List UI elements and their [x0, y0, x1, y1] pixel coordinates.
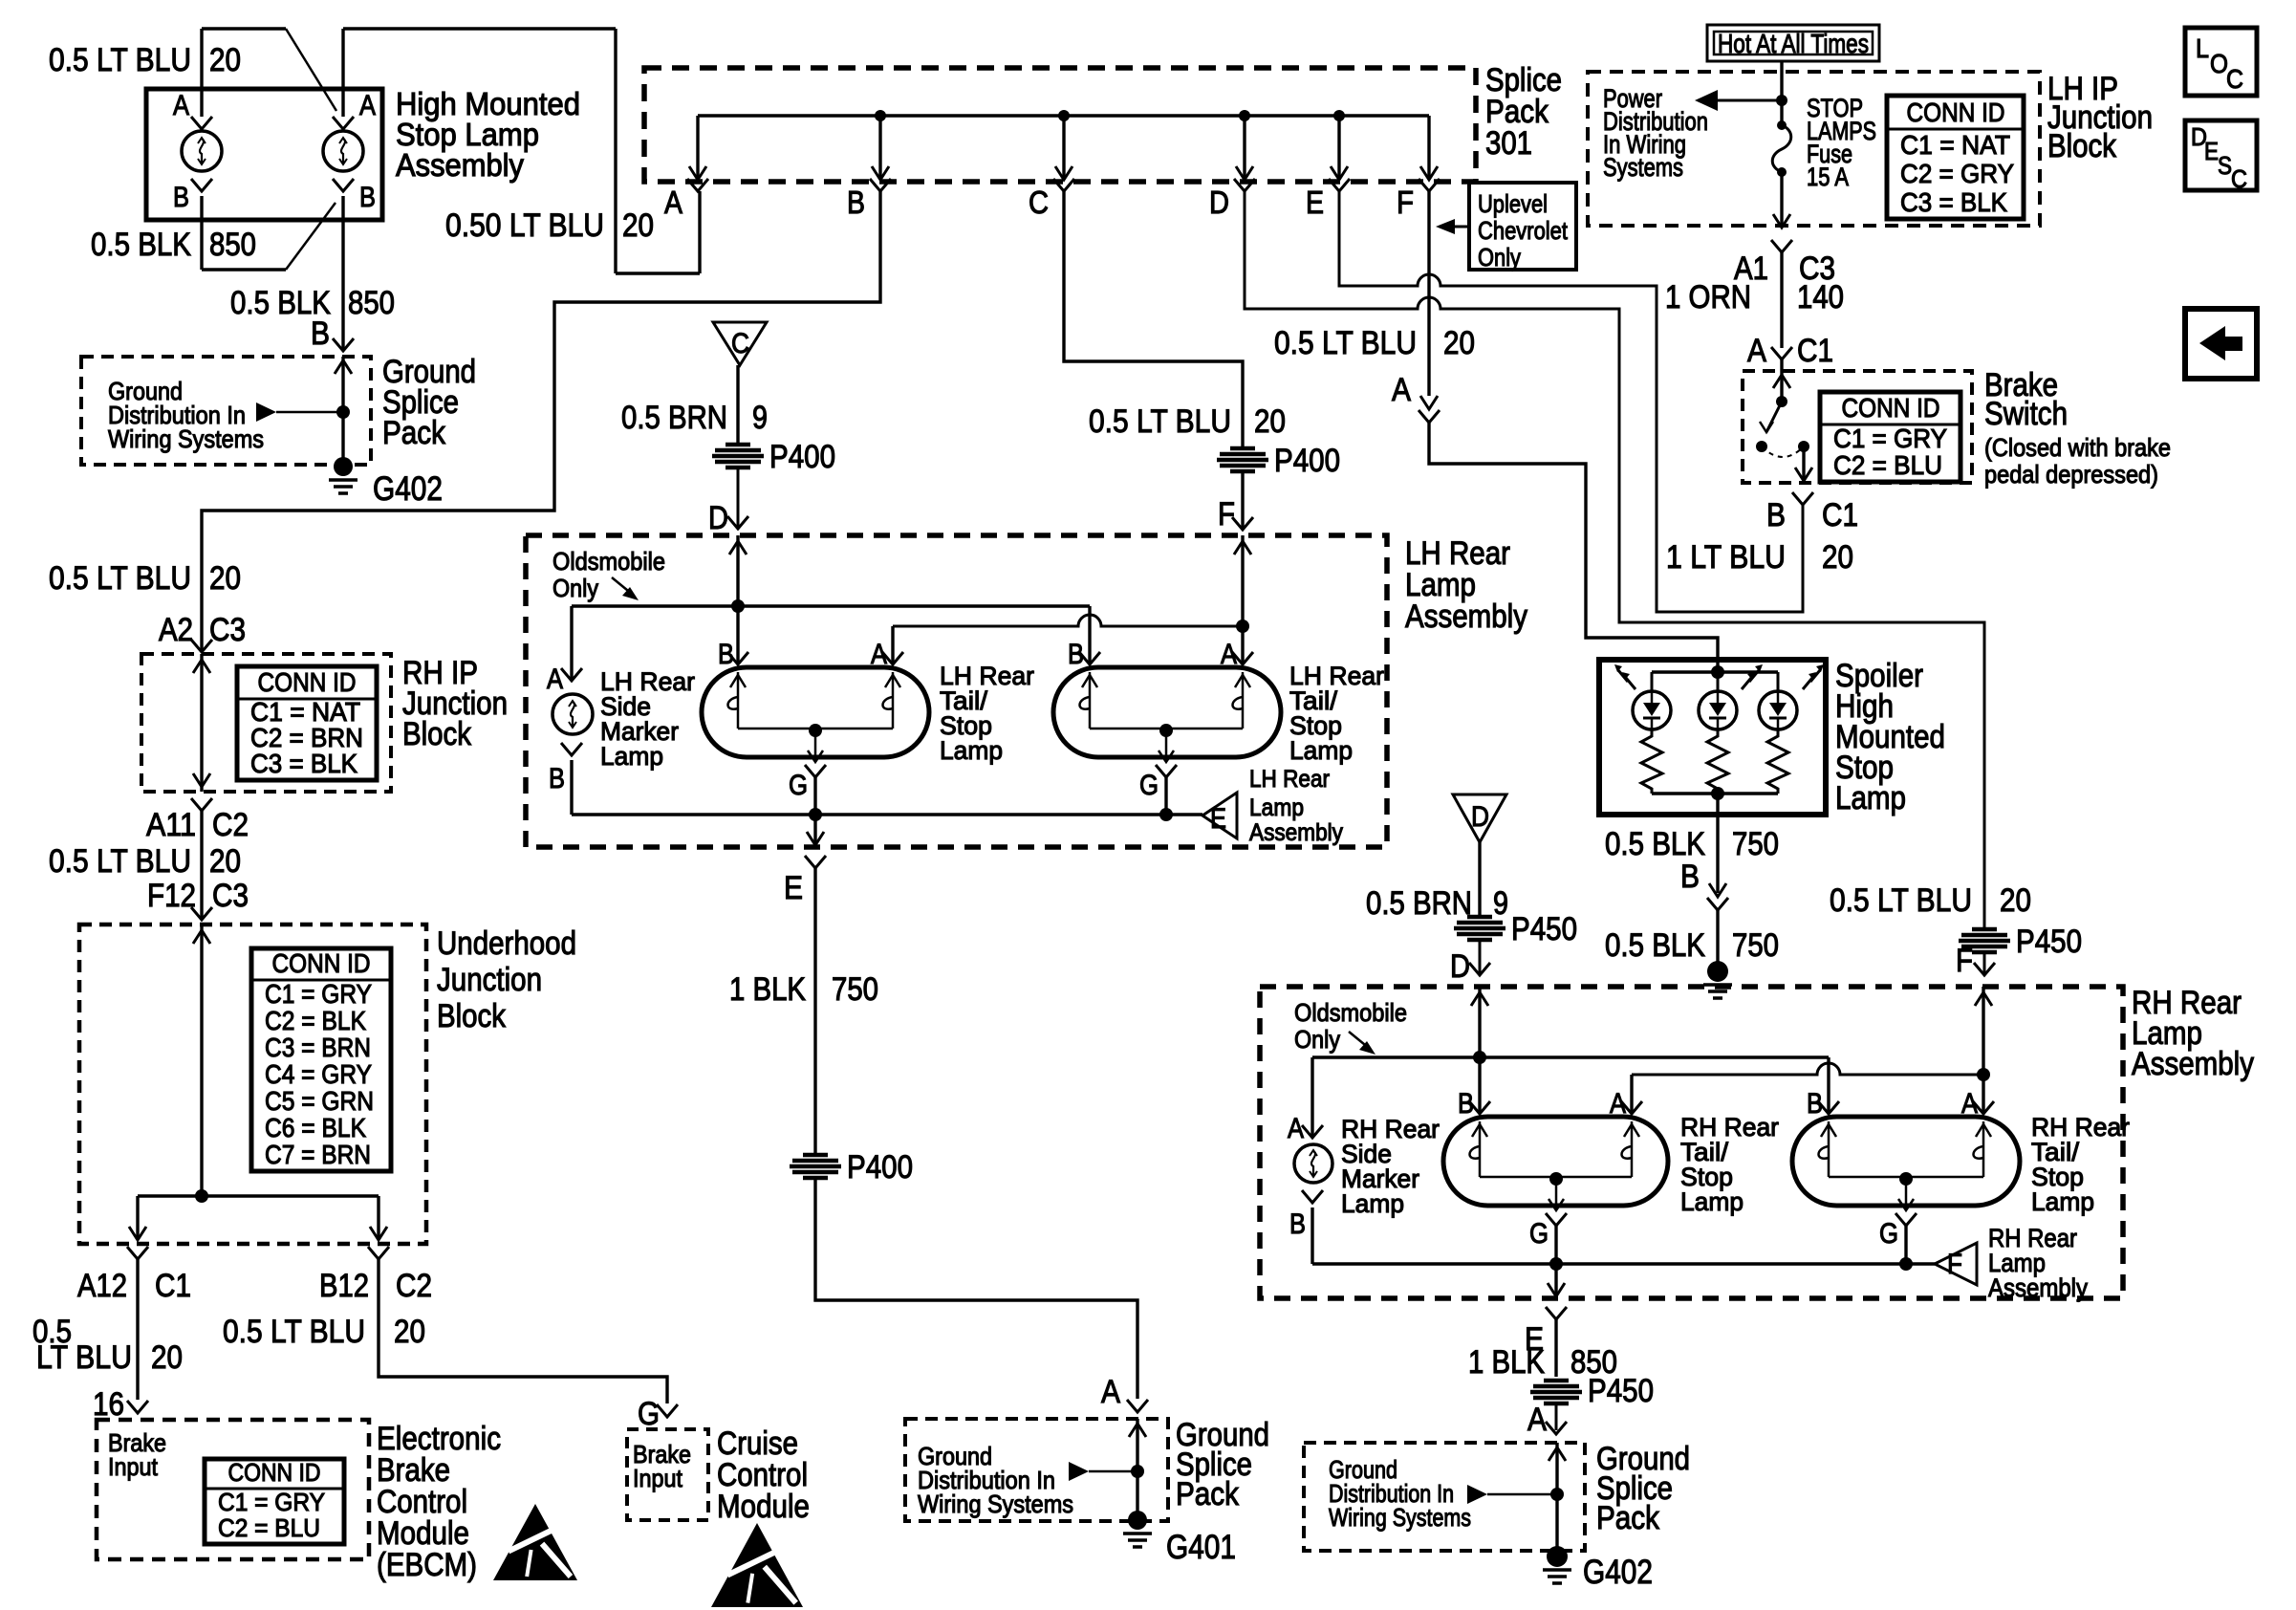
spoiler top bus [1652, 670, 1778, 673]
svg-text:Switch: Switch [1984, 396, 2068, 432]
svg-text:C1 = GRY: C1 = GRY [265, 979, 372, 1009]
underhood junction block dashed box [79, 925, 426, 1244]
svg-text:0.5 LT BLU: 0.5 LT BLU [223, 1314, 365, 1350]
chevron A1 C3 [1771, 240, 1792, 252]
svg-text:E: E [2204, 137, 2219, 165]
svg-text:P450: P450 [2016, 924, 2082, 960]
svg-text:750: 750 [1732, 927, 1779, 964]
svg-text:E: E [1306, 185, 1324, 220]
svg-text:0.5 BLK: 0.5 BLK [91, 227, 191, 263]
svg-text:20: 20 [151, 1339, 183, 1376]
svg-text:Only: Only [1294, 1025, 1340, 1054]
svg-text:C3 = BLK: C3 = BLK [1900, 187, 2007, 217]
svg-text:Oldsmobile: Oldsmobile [1294, 998, 1407, 1027]
svg-text:Chevrolet: Chevrolet [1478, 216, 1569, 245]
svg-text:Wiring Systems: Wiring Systems [918, 1490, 1073, 1518]
splice node [336, 405, 350, 419]
svg-text:20: 20 [2000, 882, 2031, 919]
chevron side marker A [561, 668, 582, 681]
LED emission arrows 1 [1626, 678, 1635, 689]
svg-text:Assembly: Assembly [1405, 598, 1527, 635]
svg-text:A: A [1392, 372, 1411, 408]
ground splice pack box G402 upper [81, 357, 371, 465]
chevron D LH box [727, 516, 748, 529]
LH ground bus [572, 813, 1202, 816]
svg-text:B: B [359, 182, 376, 213]
svg-text:Pack: Pack [1176, 1476, 1240, 1512]
svg-text:0.5 BRN: 0.5 BRN [1366, 885, 1472, 922]
spoiler LED 3 [1777, 672, 1780, 691]
svg-text:0.5 LT BLU: 0.5 LT BLU [49, 843, 191, 880]
chevron RH lamp1 B [1469, 1101, 1490, 1114]
svg-text:Block: Block [402, 716, 472, 752]
chevron lamp1 G [805, 765, 826, 777]
switch blade [1766, 402, 1782, 432]
wire RH lamp2 B drop [1827, 1057, 1830, 1114]
chevron D RH box [1469, 963, 1490, 975]
svg-text:C: C [2231, 164, 2247, 193]
svg-text:C4 = GRY: C4 = GRY [265, 1059, 372, 1089]
svg-text:0.5 LT BLU: 0.5 LT BLU [49, 560, 191, 597]
ground G402 upper symbol [334, 457, 353, 476]
svg-text:A12: A12 [77, 1268, 127, 1304]
svg-text:C3: C3 [209, 612, 246, 648]
svg-text:Lamp: Lamp [600, 742, 663, 771]
LH tail stop lamp 2 [1053, 667, 1281, 757]
connector P450 RH ground [1544, 1379, 1569, 1383]
svg-text:Uplevel: Uplevel [1478, 189, 1548, 218]
chevron G cruise [657, 1404, 678, 1417]
chevron A G402 [1546, 1422, 1567, 1434]
chevron lamp2 A [1232, 652, 1253, 664]
svg-text:C2: C2 [212, 807, 249, 843]
chevron F LH [1232, 517, 1253, 530]
svg-text:B: B [847, 185, 865, 220]
node F RH lamp2 A [1977, 1068, 1990, 1081]
connector P450 D wire [1467, 915, 1492, 920]
ESD symbol EBCM [493, 1504, 577, 1580]
svg-text:15 A: 15 A [1807, 163, 1849, 191]
svg-text:S: S [2218, 151, 2232, 180]
svg-text:Wiring Systems: Wiring Systems [1329, 1503, 1471, 1532]
svg-text:Wiring Systems: Wiring Systems [108, 424, 264, 453]
svg-text:C: C [2226, 64, 2243, 94]
wire fuse down [1780, 172, 1783, 228]
svg-text:A: A [1101, 1374, 1120, 1410]
brake switch conn id table [1820, 392, 1960, 482]
chevron RH lamp1 G [1546, 1213, 1567, 1226]
triangle connector F [1935, 1243, 1977, 1285]
triangle connector E [1202, 793, 1237, 838]
svg-text:C2: C2 [396, 1268, 432, 1304]
wire triangle D to RH lamp [1478, 842, 1481, 916]
LED emission arrows 3 [1803, 678, 1812, 689]
svg-text:C3: C3 [212, 878, 249, 914]
wire 1 BLK 850 [1554, 1319, 1557, 1377]
cruise control dashed box [627, 1429, 708, 1520]
svg-text:Lamp: Lamp [940, 736, 1003, 765]
svg-text:A: A [1527, 1402, 1547, 1438]
svg-text:A11: A11 [146, 807, 196, 843]
switch contact right [1798, 441, 1809, 452]
svg-text:P400: P400 [847, 1149, 913, 1186]
spoiler resistor 2 [1707, 729, 1728, 794]
svg-text:16: 16 [93, 1386, 124, 1423]
RH bus line 2 with hop [1632, 1063, 1983, 1075]
switch travel dashed arc [1762, 446, 1804, 457]
svg-text:B: B [1458, 1088, 1474, 1120]
chevron RH side marker A [1302, 1125, 1323, 1138]
chevron B brake switch lower [1792, 492, 1813, 505]
svg-text:Input: Input [108, 1452, 159, 1481]
G402 node [1550, 1488, 1564, 1501]
svg-text:G: G [1879, 1218, 1898, 1250]
arrow into ground splice [341, 357, 344, 467]
LOC box [2185, 28, 2257, 96]
spoiler resistor 1 [1641, 729, 1662, 794]
svg-text:F12: F12 [147, 878, 196, 914]
wire lamp2 B drop [1088, 606, 1091, 664]
svg-text:G: G [638, 1396, 660, 1432]
RH ground exit wire [1554, 1264, 1557, 1296]
wire tap B to RH IP junction block [202, 191, 880, 652]
svg-text:G402: G402 [1583, 1554, 1653, 1591]
LH ground exit wire [813, 815, 816, 845]
chevron RH lamp1 A [1621, 1101, 1642, 1114]
chevron lamp1 B [727, 652, 748, 664]
svg-text:C1: C1 [155, 1268, 191, 1304]
svg-text:20: 20 [1822, 539, 1853, 576]
svg-text:B: B [718, 639, 734, 670]
svg-text:Lamp: Lamp [1249, 794, 1304, 821]
svg-text:D: D [1450, 948, 1470, 985]
chevron A12 C1 [127, 1247, 148, 1259]
side marker wire A [570, 606, 573, 681]
pin A right chevron [333, 117, 354, 129]
svg-text:CONN ID: CONN ID [258, 667, 357, 697]
svg-text:850: 850 [209, 227, 256, 263]
svg-text:LH Rear: LH Rear [1249, 766, 1330, 793]
svg-text:9: 9 [1493, 885, 1508, 922]
uplevel pointer arrow [1448, 226, 1469, 228]
wire B12 to cruise control [379, 1259, 667, 1403]
svg-text:D: D [1209, 185, 1229, 220]
chevron F12 C3 [191, 907, 212, 920]
LED emission arrows 2 [1742, 678, 1751, 689]
svg-text:1 BLK: 1 BLK [729, 971, 806, 1008]
svg-text:(EBCM): (EBCM) [377, 1547, 477, 1583]
jumper wire lamp A pins [202, 27, 286, 30]
wire 1 ORN 140 [1780, 252, 1783, 348]
G401 node [1131, 1465, 1144, 1478]
chevron RH lamp2 A [1973, 1101, 1994, 1114]
spoiler ground stub [1716, 910, 1719, 964]
stop lamp bulb left [182, 131, 222, 171]
wire tap F to spoiler lamp [1427, 191, 1430, 396]
svg-text:20: 20 [209, 42, 241, 78]
svg-text:B: B [1289, 1208, 1306, 1240]
connector P450 on D wire [1972, 927, 1997, 932]
svg-text:750: 750 [832, 971, 878, 1008]
svg-text:D: D [1471, 801, 1489, 833]
svg-text:F: F [1947, 1249, 1962, 1280]
svg-text:Oldsmobile: Oldsmobile [552, 547, 665, 576]
svg-text:G: G [789, 770, 808, 801]
splice tap E [1337, 116, 1340, 180]
svg-text:C3 = BLK: C3 = BLK [250, 749, 357, 778]
svg-text:750: 750 [1732, 826, 1779, 862]
wire P400 to LH lamp pin F [1241, 472, 1244, 530]
svg-text:Pack: Pack [1596, 1500, 1660, 1536]
svg-text:1 LT BLU: 1 LT BLU [1666, 539, 1786, 576]
RH tail stop lamp 2 [1792, 1117, 2020, 1206]
svg-text:CONN ID: CONN ID [1907, 98, 2005, 127]
splice tap A [696, 116, 699, 180]
RH side marker lamp [1294, 1144, 1332, 1183]
svg-text:C3 = BRN: C3 = BRN [265, 1033, 371, 1062]
spoiler LED 1 [1651, 672, 1654, 691]
uplevel chevrolet only box [1469, 183, 1576, 270]
wire 0.5 LT BLU 20 to lamp A left [200, 29, 203, 117]
svg-text:0.5 LT BLU: 0.5 LT BLU [49, 42, 191, 78]
svg-text:C1: C1 [1822, 497, 1858, 533]
chevron F RH [1974, 963, 1995, 975]
svg-text:B: B [1766, 497, 1786, 533]
chevron lamp2 G [1156, 765, 1177, 777]
svg-text:P450: P450 [1511, 911, 1577, 947]
svg-text:0.5 BLK: 0.5 BLK [1605, 826, 1705, 862]
svg-text:20: 20 [1254, 403, 1286, 440]
connector P400 on C wire [1230, 446, 1255, 451]
svg-text:P400: P400 [769, 439, 835, 475]
svg-text:Hot At All Times: Hot At All Times [1718, 29, 1869, 58]
wire F pin into RH box [1982, 987, 1984, 1075]
svg-text:0.5 BRN: 0.5 BRN [621, 400, 727, 436]
svg-text:0.50 LT BLU: 0.50 LT BLU [445, 207, 604, 244]
chevron A C1 [1771, 347, 1792, 359]
RH ground bus [1312, 1262, 1935, 1265]
svg-text:G402: G402 [373, 470, 443, 508]
svg-text:Block: Block [2047, 128, 2117, 164]
svg-text:F: F [1218, 496, 1235, 533]
wire to underhood block [200, 811, 203, 920]
feed node [1776, 95, 1787, 106]
svg-text:C6 = BLK: C6 = BLK [265, 1113, 366, 1142]
wire lamp1 A drop [891, 626, 894, 664]
svg-text:A: A [1747, 333, 1766, 369]
wire tap E to brake switch [1339, 191, 1803, 612]
LH IP conn id table [1887, 96, 2024, 219]
svg-text:A: A [664, 185, 682, 220]
svg-text:G401: G401 [1166, 1529, 1236, 1566]
svg-text:20: 20 [394, 1314, 425, 1350]
wire to ground splice G401 [815, 1179, 1137, 1399]
wire RH lamp2 A drop [1982, 1075, 1984, 1114]
svg-text:Input: Input [633, 1464, 683, 1492]
svg-text:F: F [1956, 943, 1973, 979]
wire into underhood block [200, 925, 203, 1196]
svg-text:F: F [1397, 185, 1414, 220]
svg-text:P450: P450 [1588, 1373, 1654, 1409]
wire triangle C to P400 [736, 365, 739, 444]
svg-text:C1 = GRY: C1 = GRY [1833, 424, 1947, 453]
pointer to G402 node [1467, 1485, 1487, 1504]
chevron RH side marker B [1302, 1190, 1323, 1203]
wire D pin into RH box [1478, 987, 1481, 1114]
svg-text:G: G [1139, 770, 1159, 801]
wire through RH IP block [200, 654, 203, 792]
chevron A G401 [1127, 1400, 1148, 1412]
power distribution dashed box [1588, 72, 2040, 226]
chevron RH lamp2 G [1895, 1213, 1917, 1226]
node F lamp2 A [1236, 620, 1249, 633]
svg-text:Pack: Pack [382, 415, 446, 451]
svg-text:A: A [547, 664, 563, 695]
fuse STOP LAMPS 15A [1772, 125, 1791, 172]
splice pack 301 dashed box [644, 68, 1476, 182]
wire from hot feed [1780, 61, 1783, 125]
brake switch input wire [1780, 371, 1783, 402]
LH tail stop lamp 1 [702, 667, 929, 757]
chevron lamp2 B [1079, 652, 1100, 664]
svg-text:20: 20 [209, 843, 241, 880]
RH side marker wire A [1310, 1057, 1313, 1138]
ground G402 symbol [1547, 1546, 1568, 1567]
svg-text:C: C [1029, 185, 1049, 220]
pointer to G401 node [1069, 1462, 1089, 1481]
splice tap D [1243, 116, 1245, 180]
pointer to splice node [256, 402, 276, 422]
switch output wire [1802, 446, 1805, 481]
svg-text:Underhood: Underhood [437, 925, 576, 962]
svg-text:B: B [173, 182, 189, 213]
svg-text:20: 20 [1443, 325, 1475, 361]
svg-text:A: A [359, 90, 376, 121]
svg-text:301: 301 [1485, 125, 1532, 162]
svg-text:CONN ID: CONN ID [228, 1458, 321, 1487]
wire 0.5 BLK 850 to ground splice [341, 196, 344, 351]
underhood conn id table [251, 948, 391, 1171]
RH side marker wire B [1310, 1207, 1313, 1264]
svg-text:9: 9 [752, 400, 768, 436]
high mounted stop lamp assembly box [146, 89, 382, 220]
ground spoiler symbol [1707, 961, 1728, 982]
wire F pin into box [1241, 535, 1244, 626]
svg-text:C2 = BLU: C2 = BLU [218, 1513, 320, 1542]
svg-text:A: A [1288, 1113, 1304, 1144]
ground G401 symbol [1128, 1511, 1147, 1530]
spoiler ground node [1711, 787, 1724, 800]
svg-text:850: 850 [348, 285, 395, 321]
svg-text:C1 = NAT: C1 = NAT [1900, 130, 2010, 160]
svg-text:A: A [173, 90, 189, 121]
node D RH lamp1 B [1473, 1051, 1486, 1064]
spoiler resistor 3 [1767, 729, 1788, 794]
RH tail stop lamp 1 [1443, 1117, 1668, 1206]
svg-text:L: L [2196, 33, 2209, 63]
svg-text:pedal depressed): pedal depressed) [1984, 460, 2158, 489]
chevron RH lamp2 B [1818, 1101, 1839, 1114]
svg-text:(Closed with brake: (Closed with brake [1984, 433, 2171, 462]
wire 0.5 BLK 850 lamp B left [200, 196, 203, 270]
triangle connector D [1453, 794, 1506, 842]
wire RH lamp1 A drop [1630, 1075, 1633, 1114]
ground splice pack G402 box [1304, 1443, 1585, 1551]
chevron B12 C2 [368, 1247, 389, 1259]
svg-text:1 BLK: 1 BLK [1468, 1344, 1545, 1381]
svg-text:Lamp: Lamp [1341, 1189, 1404, 1218]
svg-text:B: B [549, 763, 565, 794]
pin B right chevron [333, 179, 354, 191]
brake switch dashed box [1743, 371, 1972, 483]
wire connector A to spoiler box [1429, 423, 1718, 669]
DESC box [2185, 120, 2257, 190]
svg-text:Assembly: Assembly [1249, 819, 1343, 846]
splice bus wire [698, 114, 1429, 117]
svg-text:C1 = GRY: C1 = GRY [218, 1488, 325, 1516]
back arrow box [2185, 309, 2257, 379]
svg-text:C2 = BLU: C2 = BLU [1833, 450, 1942, 480]
svg-text:Block: Block [437, 998, 507, 1034]
splice tap C [1062, 116, 1065, 180]
svg-text:Assembly: Assembly [1988, 1273, 2088, 1302]
svg-text:P400: P400 [1274, 443, 1340, 479]
svg-text:Assembly: Assembly [396, 147, 524, 183]
svg-text:0.5 LT BLU: 0.5 LT BLU [1274, 325, 1417, 361]
svg-text:Assembly: Assembly [2132, 1046, 2254, 1082]
wire tap D to RH side [1245, 191, 1984, 927]
svg-text:B: B [1807, 1088, 1823, 1120]
RH IP conn id table [237, 666, 377, 780]
wire tap C to P400 [1064, 191, 1243, 447]
svg-text:C1: C1 [1797, 333, 1833, 369]
svg-text:E: E [1210, 803, 1226, 835]
RH IP junction block dashed box [141, 654, 391, 792]
chevron lamp1 A [882, 652, 903, 664]
chevron A2 [191, 640, 212, 652]
chevron E exit [805, 856, 826, 868]
splice tap B [878, 116, 881, 180]
chevron A11 C2 [191, 798, 212, 811]
LH side marker lamp [552, 694, 593, 734]
svg-text:1 ORN: 1 ORN [1665, 279, 1751, 315]
ESD symbol cruise [711, 1523, 803, 1607]
svg-text:D: D [708, 500, 728, 536]
svg-text:Only: Only [552, 574, 598, 602]
svg-text:Lamp: Lamp [2031, 1187, 2094, 1216]
chevron E RH exit [1546, 1307, 1567, 1319]
spoiler feed node [1711, 665, 1724, 679]
EBCM conn id table [205, 1459, 344, 1544]
spoiler lamp box [1599, 660, 1826, 815]
svg-text:C5 = GRN: C5 = GRN [265, 1086, 374, 1116]
node D lamp1 B [731, 599, 745, 613]
svg-text:B: B [1068, 639, 1084, 670]
svg-text:C2 = BLK: C2 = BLK [265, 1006, 366, 1035]
side marker wire B [570, 760, 573, 815]
svg-text:C: C [731, 328, 749, 359]
svg-text:Junction: Junction [437, 962, 542, 998]
wire D pin into box [736, 535, 739, 664]
svg-text:B12: B12 [319, 1268, 369, 1304]
wire lamp2 A drop [1241, 626, 1244, 664]
splice tap F [1427, 116, 1430, 180]
svg-text:LT BLU: LT BLU [36, 1339, 132, 1376]
chevron side marker B [561, 743, 582, 755]
stop lamp bulb right [323, 131, 363, 171]
svg-text:A2: A2 [159, 612, 193, 648]
underhood split wires [138, 1194, 379, 1197]
